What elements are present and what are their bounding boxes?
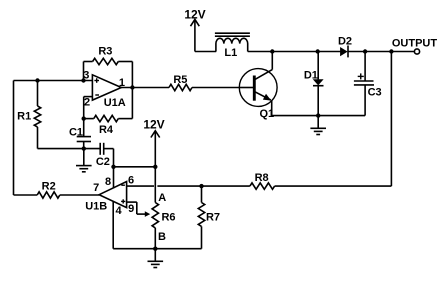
wire noninverting input row (pin3): [14, 80, 93, 82]
svg-text:7: 7: [93, 182, 99, 194]
svg-text:L1: L1: [224, 47, 237, 59]
wire R1 bottom to C2: [38, 148, 101, 150]
wire L1 to D2 (top rail): [248, 51, 341, 53]
node C3 top junction: [363, 49, 367, 53]
inductor L1: [215, 33, 250, 51]
svg-text:D1: D1: [304, 70, 318, 82]
svg-text:R3: R3: [98, 46, 112, 58]
resistor R2: [14, 192, 100, 198]
capacitor C2: [100, 143, 113, 167]
node R7 top junction: [199, 184, 203, 188]
wire 12V corner to L1: [195, 51, 216, 53]
wire U1B pin 4: [113, 201, 155, 249]
svg-text:OUTPUT: OUTPUT: [392, 37, 438, 49]
node R6 bottom junction: [153, 247, 157, 251]
resistor R3 feedback loop: [84, 58, 133, 87]
svg-text:C1: C1: [69, 126, 83, 138]
node C1 bottom junction: [82, 146, 86, 150]
svg-text:8: 8: [105, 176, 111, 188]
C3 polarity +: [358, 73, 364, 79]
svg-text:6: 6: [128, 175, 134, 187]
svg-text:R6: R6: [161, 211, 175, 223]
svg-text:C2: C2: [96, 156, 110, 168]
output terminal: [414, 49, 419, 54]
svg-text:R2: R2: [42, 181, 56, 193]
node output feedback junction: [389, 49, 393, 53]
diode D2: [340, 46, 348, 58]
wire emitter to C3 bottom: [272, 115, 365, 117]
wire 12V down to R6 (crosses pin6 wire): [154, 167, 156, 203]
node R3 feedback tap: [81, 78, 85, 82]
svg-text:9: 9: [128, 203, 134, 215]
wire left rail: [13, 81, 15, 196]
resistor R7: [155, 186, 204, 249]
svg-text:D2: D2: [338, 35, 352, 47]
diode D1: [313, 52, 324, 116]
wire inverting input (pin2) to R4/C1: [84, 97, 93, 119]
capacitor C1: [77, 119, 91, 149]
node Q1 collector junction: [270, 49, 274, 53]
wire D2 to output terminal: [348, 51, 414, 53]
ground (D1/C3): [310, 116, 326, 135]
svg-text:U1B: U1B: [85, 200, 107, 212]
12V arrow (U1B supply): [151, 131, 160, 167]
svg-text:B: B: [158, 231, 166, 243]
svg-text:C3: C3: [368, 86, 382, 98]
svg-text:4: 4: [115, 205, 122, 217]
op-amp U1B: [99, 182, 127, 208]
node U1A output/R3/R4 junction: [130, 85, 134, 89]
svg-text:Q1: Q1: [259, 108, 274, 120]
node D1 bottom junction: [316, 113, 320, 117]
op-amp U1A: [92, 75, 121, 100]
ground (R6/pin4): [148, 249, 164, 268]
svg-text:R4: R4: [99, 124, 114, 136]
resistor R6 (trimpot): [152, 203, 158, 249]
svg-text:12V: 12V: [143, 118, 164, 132]
capacitor C3: [354, 52, 374, 116]
svg-text:R5: R5: [173, 74, 187, 86]
U1B pin 9 wiper wire: [127, 202, 151, 217]
transistor Q1: [239, 52, 277, 116]
resistor R8: [250, 183, 275, 189]
ground (C1): [76, 149, 92, 172]
svg-text:2: 2: [84, 97, 90, 109]
svg-text:A: A: [158, 192, 166, 204]
resistor R1: [34, 81, 40, 149]
node 12V/R6 junction: [153, 165, 157, 169]
12V supply arrow (up): [191, 19, 200, 51]
resistor R5: [169, 84, 239, 90]
wire pin8 node to 12V line: [114, 166, 156, 168]
node R4/C1 junction: [82, 116, 86, 120]
svg-text:R8: R8: [255, 172, 269, 184]
node D1 top junction: [316, 49, 320, 53]
svg-text:3: 3: [83, 70, 89, 82]
svg-text:U1A: U1A: [104, 97, 126, 109]
node R1 top: [35, 78, 39, 82]
wire U1B pin 8: [113, 167, 115, 189]
node U1B pin8 supply junction: [111, 165, 115, 169]
svg-text:R7: R7: [206, 211, 220, 223]
wire U1A output to R5: [121, 87, 169, 89]
wire output feedback down-left to R8: [275, 52, 392, 187]
resistor R4 feedback loop: [84, 88, 133, 122]
svg-text:R1: R1: [17, 110, 31, 122]
wire U1B pin 6 to R8 (hops R6 line): [127, 185, 250, 187]
